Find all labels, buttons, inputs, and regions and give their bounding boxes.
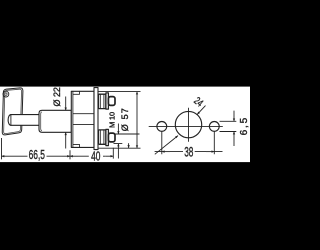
svg-text:Ø 22: Ø 22 <box>52 87 62 107</box>
svg-text:Ø 57: Ø 57 <box>120 108 130 131</box>
svg-text:66,5: 66,5 <box>29 148 45 162</box>
svg-text:M 10: M 10 <box>108 112 117 128</box>
svg-text:40: 40 <box>91 150 100 164</box>
svg-text:38: 38 <box>184 145 193 160</box>
svg-text:6,5: 6,5 <box>239 116 250 135</box>
